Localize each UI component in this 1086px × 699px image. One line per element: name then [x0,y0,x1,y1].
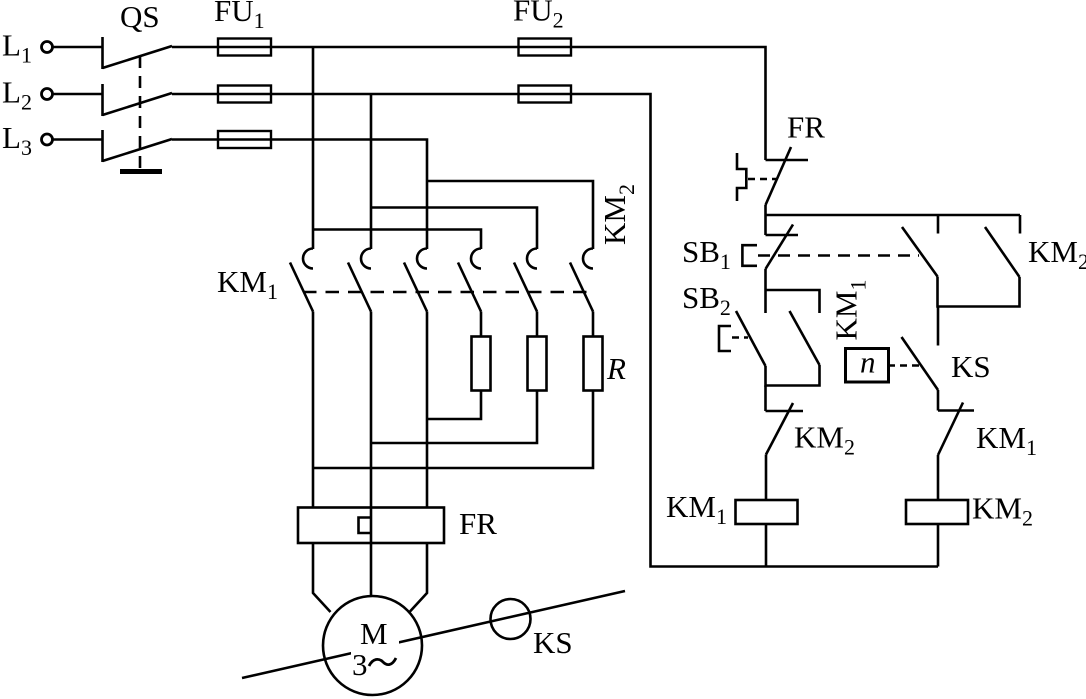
wire corner KM2 aux [1019,215,1022,234]
node L2 terminal [42,89,53,100]
svg-text:SB2: SB2 [682,280,731,320]
button SB1 (NC) [742,225,798,270]
label 3~ tilde [369,658,396,666]
button SB1 (NO) [902,227,938,277]
svg-text:M: M [360,616,388,651]
contact KM2 interlock (NC) [766,403,804,455]
svg-text:KS: KS [533,625,573,660]
svg-text:KM1: KM1 [829,280,871,341]
wire stub SB1-NO [937,215,940,234]
wire FR to motor mid [370,543,373,597]
fuse FU1 pole 2 [218,86,271,103]
wire L1 to QS [53,46,102,49]
fuse FU2 pole 2 [519,86,572,103]
svg-text:L3: L3 [2,120,32,160]
switch QS pole 2 [103,84,173,116]
thermal relay FR heater block [298,508,444,544]
wire parallel join bar [938,277,1020,307]
wire L2 to QS [53,93,102,96]
wire to KS [937,307,940,346]
fuse FU2 pole 1 [519,39,572,56]
wire phase A vertical [312,47,315,249]
wire contact4 to R1 [480,312,483,337]
wire L3 to QS [53,138,102,141]
wire L3 bus [172,140,427,250]
wire control top rail [766,214,1021,217]
svg-text:L1: L1 [2,28,32,68]
svg-text:3: 3 [352,647,368,682]
wire branch to KM1 aux [766,290,820,313]
wire branch C to KM2 pole 6 [427,181,593,249]
switch QS pole 3 [103,130,173,162]
wire phase B vertical [370,94,373,249]
contactor KM2 pole 3 [570,249,593,312]
coil KM2 [906,500,968,524]
svg-text:KM2: KM2 [1028,234,1086,274]
wire SB2 bottom join [766,365,820,386]
wire FR to motor right [410,543,428,612]
wire contact3 down [426,312,429,508]
wire contact1 down [312,312,315,508]
svg-text:KM2: KM2 [597,184,639,245]
node L1 terminal [42,42,53,53]
node L3 terminal [42,134,53,145]
speed sensor KS circle [491,599,531,639]
contactor KM2 pole 2 [514,249,537,312]
n linkage dashed [888,364,920,367]
svg-text:L2: L2 [2,75,32,115]
svg-text:n: n [860,345,876,380]
svg-text:KM1: KM1 [666,489,727,529]
wire R1 to phase C [427,391,481,420]
wire KM2 coil to rail [937,524,940,567]
contact KM1 aux (NO) [790,311,820,365]
wire branch B to KM2 pole 5 [371,208,537,250]
svg-text:FU1: FU1 [214,0,265,33]
svg-text:KM1: KM1 [976,420,1037,460]
resistor R3 [584,337,603,391]
svg-text:SB1: SB1 [682,234,731,274]
coil KM1 [736,500,798,524]
contactor KM1 pole 1 [290,249,313,312]
svg-text:KS: KS [951,349,991,384]
button SB2 (NO) [719,311,766,366]
contact KM2 aux (NO) [985,227,1020,277]
wire through FR middle [370,508,373,544]
fuse FU1 pole 1 [218,39,271,56]
svg-text:KM1: KM1 [217,264,278,304]
QS linkage dashed [139,56,142,170]
FR heater notch [359,518,372,534]
contactor KM2 pole 1 [458,249,481,312]
wire branch A to KM2 pole 4 [313,230,481,250]
wire R2 to phase B [371,391,537,444]
switch QS pole 1 [103,37,173,69]
KM1 linkage dashed [303,291,589,294]
motor M circle [323,596,422,695]
resistor R2 [528,337,547,391]
QS handle [120,169,162,174]
resistor R1 [472,337,491,391]
wire contact5 to R2 [536,312,539,337]
wire L1 bus [172,47,766,160]
SB1 linkage dashed [758,254,919,257]
contactor KM1 pole 3 [404,249,427,312]
motor shaft line [242,591,625,678]
wire SB1 down [764,269,767,313]
svg-text:FR: FR [459,506,497,541]
svg-text:FR: FR [787,110,825,145]
speed box n [846,349,889,383]
relay contact FR (NC) [737,147,808,205]
switch KS (NO) [902,337,939,390]
svg-text:QS: QS [120,0,160,34]
svg-text:FU2: FU2 [513,0,564,33]
wire contact2 down [370,312,373,508]
wire L2 bus [172,94,938,567]
contactor KM1 pole 2 [348,249,371,312]
wire to KM2 coil [937,455,940,500]
wire control right feed [764,159,767,162]
wire R3 to phase A [313,391,593,469]
wire KM1 coil to rail [765,524,768,567]
wire FR to motor left [313,543,331,612]
fuse FU1 pole 3 [218,131,271,148]
svg-text:R: R [606,351,626,386]
svg-text:KM2: KM2 [794,420,855,460]
wire to KM1 coil [765,455,768,501]
wire KS down [937,390,940,411]
wire to KM2 interlock [764,386,767,412]
contact KM1 interlock (NC) [938,403,974,456]
svg-text:KM2: KM2 [972,491,1033,531]
wire FR to rail [764,205,767,235]
wire contact6 to R3 [592,312,595,337]
